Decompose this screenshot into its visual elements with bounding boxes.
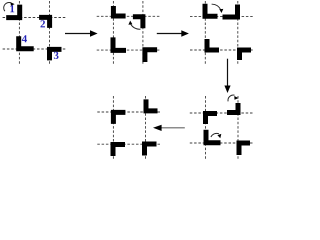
D1 piece 2 (L left-down) bbox=[39, 15, 52, 28]
D3 bottom-left piece (L up-right) bbox=[205, 39, 220, 53]
diagram D5 grid dashed lines bbox=[97, 96, 161, 160]
diagram D3 grid dashed lines bbox=[190, 1, 254, 64]
D3 rotation arrow on top-left piece bbox=[212, 4, 221, 10]
D1 label 1 bbox=[10, 5, 14, 12]
D1 piece 1 (L up-left) bbox=[6, 5, 22, 21]
D3 top-right piece (L up-left) bbox=[223, 5, 241, 20]
D2 top-right piece (L left-down) bbox=[133, 14, 146, 28]
D1 piece 3 (L down-right) bbox=[47, 47, 62, 61]
D3 bottom-right piece (L down-right) bbox=[237, 48, 251, 61]
D2 bottom-left piece (L up-right) bbox=[111, 37, 127, 53]
D4 bottom-right piece (L down-right) bbox=[237, 141, 251, 156]
D4 rotation arrow on bottom-left piece bbox=[211, 133, 219, 137]
arrow from D2 to D3 bbox=[157, 33, 183, 35]
D1 label 3 bbox=[54, 52, 59, 59]
D4 rotation arrow on top-right piece bbox=[228, 95, 235, 101]
D5 bottom-right piece (L down-right) bbox=[142, 142, 157, 156]
diagram D2 grid dashed lines bbox=[97, 1, 161, 64]
D1 label 2 bbox=[41, 20, 45, 27]
diagram D1 grid dashed lines bbox=[3, 1, 67, 64]
D2 top-left piece (L up-right) bbox=[111, 6, 126, 19]
D2 rotation arrow on top-right piece bbox=[130, 24, 140, 30]
D2 bottom-right piece (L down-right) bbox=[142, 47, 157, 62]
D4 top-right piece (L up-left) bbox=[227, 103, 241, 115]
arrow from D3 down to D4 bbox=[227, 59, 229, 87]
D1 label 4 bbox=[22, 35, 27, 42]
D5 bottom-left piece (L down-right) bbox=[111, 142, 126, 156]
D4 top-left piece (L down-right) bbox=[203, 111, 217, 124]
D5 top-left piece (L down-right) bbox=[111, 110, 126, 124]
D1 rotation arrow on piece 1 bbox=[4, 3, 12, 12]
D4 bottom-left piece (L up-right) bbox=[204, 130, 221, 146]
diagram D4 grid dashed lines bbox=[190, 96, 254, 160]
arrow from D1 to D2 bbox=[65, 33, 91, 35]
D1 piece 4 (L up-right) bbox=[16, 36, 34, 51]
D3 top-left piece (L up-right) bbox=[203, 4, 218, 19]
D5 top-right piece (L up-right) bbox=[144, 99, 158, 113]
arrow from D4 to D5 bbox=[161, 127, 185, 129]
